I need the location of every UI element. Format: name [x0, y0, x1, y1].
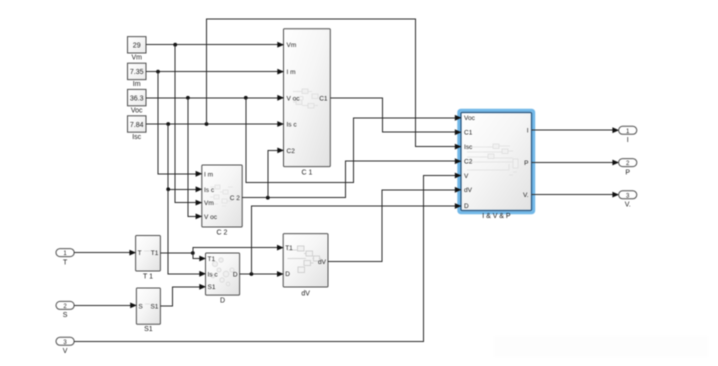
svg-text:C 2: C 2	[217, 229, 228, 236]
svg-text:Vm: Vm	[131, 55, 142, 62]
svg-text:C1: C1	[319, 95, 328, 102]
node on Isc wire right	[205, 122, 209, 126]
svg-text:I m: I m	[204, 171, 213, 178]
wire D branch to I&V&P	[251, 206, 456, 274]
svg-text:S: S	[138, 304, 143, 311]
svg-text:D: D	[220, 298, 225, 305]
node on C2 output wire	[266, 196, 270, 200]
wire T1 output	[160, 252, 192, 254]
svg-text:36.3: 36.3	[130, 95, 144, 102]
svg-text:Voc: Voc	[464, 115, 476, 122]
subsystem C1	[284, 29, 331, 177]
svg-text:C2: C2	[464, 159, 473, 166]
svg-text:V.: V.	[523, 192, 529, 199]
svg-text:V: V	[63, 348, 68, 355]
svg-text:I m: I m	[287, 69, 296, 76]
svg-text:S1: S1	[208, 284, 216, 291]
subsystem dV	[283, 234, 328, 298]
svg-text:P: P	[524, 160, 528, 167]
wire T1 branch to dV	[193, 248, 279, 253]
node on Isc branch at C2 level	[166, 187, 170, 191]
constant Isc value 7.84	[128, 116, 147, 141]
subsystem D	[206, 253, 240, 305]
wire Im constant to C1	[146, 69, 284, 75]
svg-text:C 1: C 1	[301, 169, 312, 176]
wire I&V&P output I to outport 1	[532, 127, 620, 133]
wire Voc branch to I&V&P	[246, 98, 457, 183]
node on Vm wire	[173, 43, 177, 47]
svg-text:I & V & P: I & V & P	[482, 213, 511, 220]
outport 3 V.	[619, 191, 637, 209]
svg-text:V oc: V oc	[287, 95, 301, 102]
wire T1 branch to D	[193, 253, 201, 259]
wire Voc branch to C2	[188, 98, 198, 217]
wire inport S to S1	[74, 303, 137, 309]
inport 3 V	[56, 337, 74, 355]
svg-text:Vm: Vm	[287, 42, 297, 49]
svg-text:7.84: 7.84	[130, 122, 144, 129]
wire inport V to I&V&P	[74, 176, 456, 342]
wire I&V&P output V to outport 3	[532, 192, 620, 198]
svg-text:Voc: Voc	[131, 107, 143, 114]
svg-text:I: I	[527, 128, 529, 135]
wire dV output to I&V&P	[328, 190, 457, 262]
svg-text:S1: S1	[144, 326, 153, 333]
svg-text:C1: C1	[464, 130, 473, 137]
constant Voc value 36.3	[128, 89, 147, 114]
svg-text:T: T	[138, 250, 142, 257]
svg-text:Is c: Is c	[287, 122, 298, 129]
svg-text:V.: V.	[625, 202, 631, 209]
node on T1 output wire	[191, 251, 195, 255]
svg-text:C2: C2	[287, 148, 296, 155]
subsystem T1	[136, 236, 161, 281]
svg-text:Is c: Is c	[208, 272, 219, 279]
wire C2 output to I&V&P	[242, 161, 456, 198]
svg-text:T: T	[63, 259, 68, 266]
node on Voc wire right	[244, 96, 248, 100]
wire inport T to T1	[74, 250, 136, 256]
wire Im branch to C2	[158, 72, 198, 174]
svg-text:D: D	[285, 271, 290, 278]
outport 1 I	[619, 126, 637, 144]
node on Im wire	[156, 70, 160, 74]
svg-text:S1: S1	[150, 304, 158, 311]
svg-text:D: D	[464, 203, 469, 210]
wire Isc branch to C2	[168, 124, 197, 189]
wire Vm branch to C2	[175, 45, 197, 203]
wire Vm constant to C1	[146, 42, 284, 48]
wire Isc top route to I&V&P	[207, 19, 457, 147]
svg-text:T 1: T 1	[143, 273, 153, 280]
svg-text:Im: Im	[133, 81, 141, 88]
svg-text:T1: T1	[151, 250, 159, 257]
wire Isc branch to D	[168, 189, 201, 273]
wire C1 output to I&V&P	[330, 98, 456, 132]
node on Voc wire left	[186, 96, 190, 100]
constant Im value 7.35	[128, 63, 147, 88]
svg-text:dV: dV	[318, 259, 327, 266]
wire D output to dV	[240, 271, 284, 277]
node on D output wire	[250, 272, 254, 276]
outport 2 P	[619, 159, 637, 177]
subsystem C2	[202, 165, 242, 236]
svg-text:Isc: Isc	[132, 134, 141, 141]
svg-text:P: P	[625, 169, 630, 176]
svg-text:V: V	[464, 173, 469, 180]
svg-text:D: D	[233, 272, 238, 279]
svg-text:S: S	[63, 312, 68, 319]
wire C2 branch to C1 C2 input	[268, 150, 279, 197]
inport 1 T	[56, 249, 74, 267]
svg-text:dV: dV	[464, 187, 473, 194]
inport 2 S	[56, 301, 74, 319]
svg-text:7.35: 7.35	[130, 69, 144, 76]
wire Isc constant to C1	[146, 121, 284, 127]
svg-text:Vm: Vm	[204, 200, 214, 207]
svg-text:Isc: Isc	[464, 144, 473, 151]
svg-text:T1: T1	[208, 256, 216, 263]
subsystem I&V&P (selected)	[459, 110, 534, 220]
svg-text:29: 29	[133, 43, 141, 50]
wire I&V&P output P to outport 2	[532, 160, 620, 166]
svg-text:T1: T1	[285, 245, 293, 252]
svg-text:Is c: Is c	[204, 187, 215, 194]
svg-text:I: I	[627, 137, 629, 144]
svg-text:C 2: C 2	[230, 195, 241, 202]
subsystem S1	[136, 288, 160, 333]
svg-text:dV: dV	[301, 291, 310, 298]
wire S1 output to D	[160, 287, 201, 306]
constant Vm value 29	[128, 37, 147, 62]
node on Isc wire left	[166, 122, 170, 126]
wire Voc constant to C1	[146, 95, 284, 101]
svg-text:V oc: V oc	[204, 214, 218, 221]
